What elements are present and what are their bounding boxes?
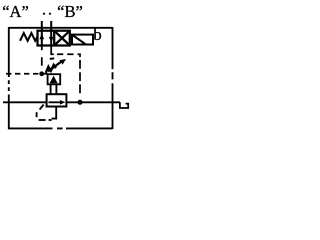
svg-text:“A”: “A”	[2, 2, 29, 21]
svg-text:“B”: “B”	[57, 2, 83, 21]
